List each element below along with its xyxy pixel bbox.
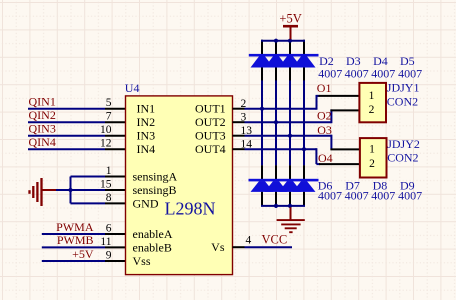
wire +5V [42, 260, 105, 262]
svg-text:4007: 4007 [318, 66, 342, 80]
wire to earth ground [290, 207, 292, 220]
svg-text:IN3: IN3 [137, 129, 156, 143]
diode D7 bottom pin [275, 192, 277, 206]
wire QIN2 [28, 121, 105, 123]
pin 14 OUT stub [233, 148, 245, 150]
svg-text:1: 1 [369, 144, 375, 156]
svg-text:IN4: IN4 [137, 142, 156, 156]
JDJY1 pin 2 stub [330, 109, 359, 111]
junction on sensing bus [68, 188, 72, 192]
svg-text:enableA: enableA [133, 227, 173, 241]
wire QIN1 [28, 108, 105, 110]
diode D9 triangle [293, 181, 316, 192]
diode D2 bottom pin [261, 67, 263, 80]
svg-text:sensingA: sensingA [133, 170, 178, 184]
svg-text:CON2: CON2 [387, 151, 418, 165]
svg-text:12: 12 [100, 138, 112, 150]
pin 6 stub [105, 233, 126, 235]
svg-text:enableB: enableB [133, 240, 172, 254]
diode D9 top pin [303, 165, 305, 179]
svg-text:4007: 4007 [371, 189, 395, 203]
pin 7 IN stub [105, 121, 126, 123]
svg-text:5: 5 [106, 97, 112, 109]
svg-text:10: 10 [100, 124, 112, 136]
diodes D6-D9 cathode bar [249, 179, 319, 182]
diode D9 bottom pin [303, 192, 305, 206]
svg-text:1: 1 [369, 90, 375, 102]
diode D7 top pin [275, 165, 277, 179]
earth ground symbol [277, 220, 305, 232]
wire O2 horizontal from pin 3 [245, 121, 332, 123]
svg-text:JDJY1: JDJY1 [387, 80, 420, 94]
wire PWMB [42, 246, 105, 248]
svg-text:OUT1: OUT1 [195, 102, 226, 116]
wire sensing pin 8 [71, 202, 106, 204]
wire O1 to JDJY1 pin 1 [317, 95, 320, 97]
wire O3 vertical [330, 135, 332, 150]
svg-text:OUT3: OUT3 [195, 129, 226, 143]
svg-text:8: 8 [106, 192, 112, 204]
svg-text:4007: 4007 [345, 189, 369, 203]
svg-text:CON2: CON2 [387, 94, 418, 108]
svg-text:PWMB: PWMB [57, 233, 94, 247]
svg-text:JDJY2: JDJY2 [387, 137, 420, 151]
svg-text:O2: O2 [317, 109, 332, 123]
connector JDJY2 body [360, 138, 387, 177]
diode D5 bottom pin [303, 67, 305, 80]
pin 10 IN stub [105, 135, 126, 137]
junction O1/column1 [260, 107, 264, 111]
wire column 4 [303, 80, 305, 165]
svg-text:4: 4 [246, 235, 252, 247]
diode D3 triangle [265, 56, 288, 67]
svg-text:15: 15 [100, 179, 112, 191]
svg-text:IN1: IN1 [137, 102, 156, 116]
diodes D2-D5 cathode bar [249, 54, 319, 57]
pin 13 OUT stub [233, 135, 245, 137]
junction top bus col3 [288, 39, 292, 43]
power +5V symbol [283, 26, 298, 39]
wire column 2 [275, 80, 277, 165]
svg-text:IN2: IN2 [137, 115, 156, 129]
wire bottom bus [261, 205, 305, 207]
diode D6 bottom pin [261, 192, 263, 206]
svg-text:7: 7 [106, 111, 112, 123]
diode D4 triangle [279, 56, 302, 67]
wire O1 vertical [316, 95, 318, 110]
wire sensing bus vertical [70, 177, 72, 204]
wire QIN4 [28, 148, 105, 150]
pin 12 IN stub [105, 148, 126, 150]
pin 4 Vs stub [233, 246, 245, 248]
svg-text:2: 2 [369, 104, 375, 116]
junction O4/column4 [302, 147, 306, 151]
pin 8 stub [105, 202, 126, 204]
wire QIN3 [28, 135, 105, 137]
wire column 1 [261, 80, 263, 165]
wire O4 to JDJY2 pin 2 [316, 163, 320, 165]
connector JDJY1 body [359, 83, 386, 122]
pin 15 stub [105, 189, 126, 191]
pin 3 OUT stub [233, 121, 245, 123]
diode D8 bottom pin [289, 192, 291, 206]
diode D7 triangle [265, 181, 288, 192]
svg-text:PWMA: PWMA [56, 220, 94, 234]
svg-text:4007: 4007 [371, 66, 395, 80]
svg-text:QIN1: QIN1 [29, 95, 56, 109]
svg-text:L298N: L298N [165, 199, 216, 219]
svg-text:GND: GND [133, 196, 159, 210]
junction O3/column3 [288, 134, 292, 138]
diode D3 bottom pin [275, 67, 277, 80]
diode D2 top pin [261, 40, 263, 55]
svg-text:11: 11 [100, 236, 111, 248]
pin 11 stub [105, 246, 126, 248]
svg-text:9: 9 [106, 250, 112, 262]
junction bottom bus col3 [288, 204, 292, 208]
diode D4 top pin [289, 40, 291, 55]
svg-text:+5V: +5V [72, 247, 94, 261]
svg-text:4007: 4007 [398, 189, 422, 203]
junction top bus col2 [274, 39, 278, 43]
svg-text:2: 2 [369, 158, 375, 170]
svg-text:QIN2: QIN2 [29, 108, 56, 122]
svg-text:Vs: Vs [211, 240, 225, 254]
diode D8 triangle [279, 181, 302, 192]
diode D8 top pin [289, 165, 291, 179]
JDJY2 pin 1 stub [330, 148, 360, 150]
junction bottom bus col2 [274, 204, 278, 208]
wire O1 horizontal from pin 2 [245, 108, 317, 110]
pin 1 stub [105, 176, 126, 178]
ground (earth, left-pointing) [30, 178, 42, 206]
svg-text:O4: O4 [318, 151, 333, 165]
svg-text:4007: 4007 [398, 66, 422, 80]
svg-text:OUT4: OUT4 [195, 142, 226, 156]
JDJY2 pin 2 stub [319, 163, 360, 165]
svg-text:4007: 4007 [318, 189, 342, 203]
diode D2 triangle [251, 56, 274, 67]
svg-text:QIN3: QIN3 [29, 122, 56, 136]
svg-text:sensingB: sensingB [133, 183, 177, 197]
pin 2 OUT stub [233, 108, 245, 110]
diode D5 triangle [293, 56, 316, 67]
diode D5 top pin [303, 40, 305, 55]
wire PWMA [42, 233, 105, 235]
pin 9 stub [105, 260, 126, 262]
wire O2 vertical [330, 109, 332, 123]
wire sensing pin 1 [71, 176, 106, 178]
svg-text:O3: O3 [317, 123, 332, 137]
wire O4 vertical [315, 148, 317, 164]
wire column 3 [289, 80, 291, 165]
svg-text:6: 6 [106, 223, 112, 235]
diode D3 top pin [275, 40, 277, 55]
svg-text:QIN4: QIN4 [29, 135, 56, 149]
diode D6 top pin [261, 165, 263, 179]
wire O4 horizontal from pin 14 [245, 148, 317, 150]
wire to ground [55, 189, 71, 191]
svg-text:+5V: +5V [279, 12, 301, 26]
wire VCC [245, 246, 293, 248]
svg-text:1: 1 [106, 165, 112, 177]
svg-text:OUT2: OUT2 [195, 115, 226, 129]
junction O2/column2 [274, 120, 278, 124]
diode D4 bottom pin [289, 67, 291, 80]
wire sensing pin 15 [71, 189, 106, 191]
svg-text:Vss: Vss [133, 254, 151, 268]
svg-text:4007: 4007 [345, 66, 369, 80]
JDJY1 pin 1 stub [319, 95, 360, 97]
wire O3 horizontal from pin 13 [245, 135, 332, 137]
IC U4 L298N body [126, 96, 233, 275]
svg-text:VCC: VCC [262, 233, 288, 247]
pin 5 IN stub [105, 108, 126, 110]
svg-text:O1: O1 [317, 81, 332, 95]
wire top bus [261, 40, 305, 42]
diode D6 triangle [251, 181, 274, 192]
svg-text:U4: U4 [125, 81, 140, 95]
